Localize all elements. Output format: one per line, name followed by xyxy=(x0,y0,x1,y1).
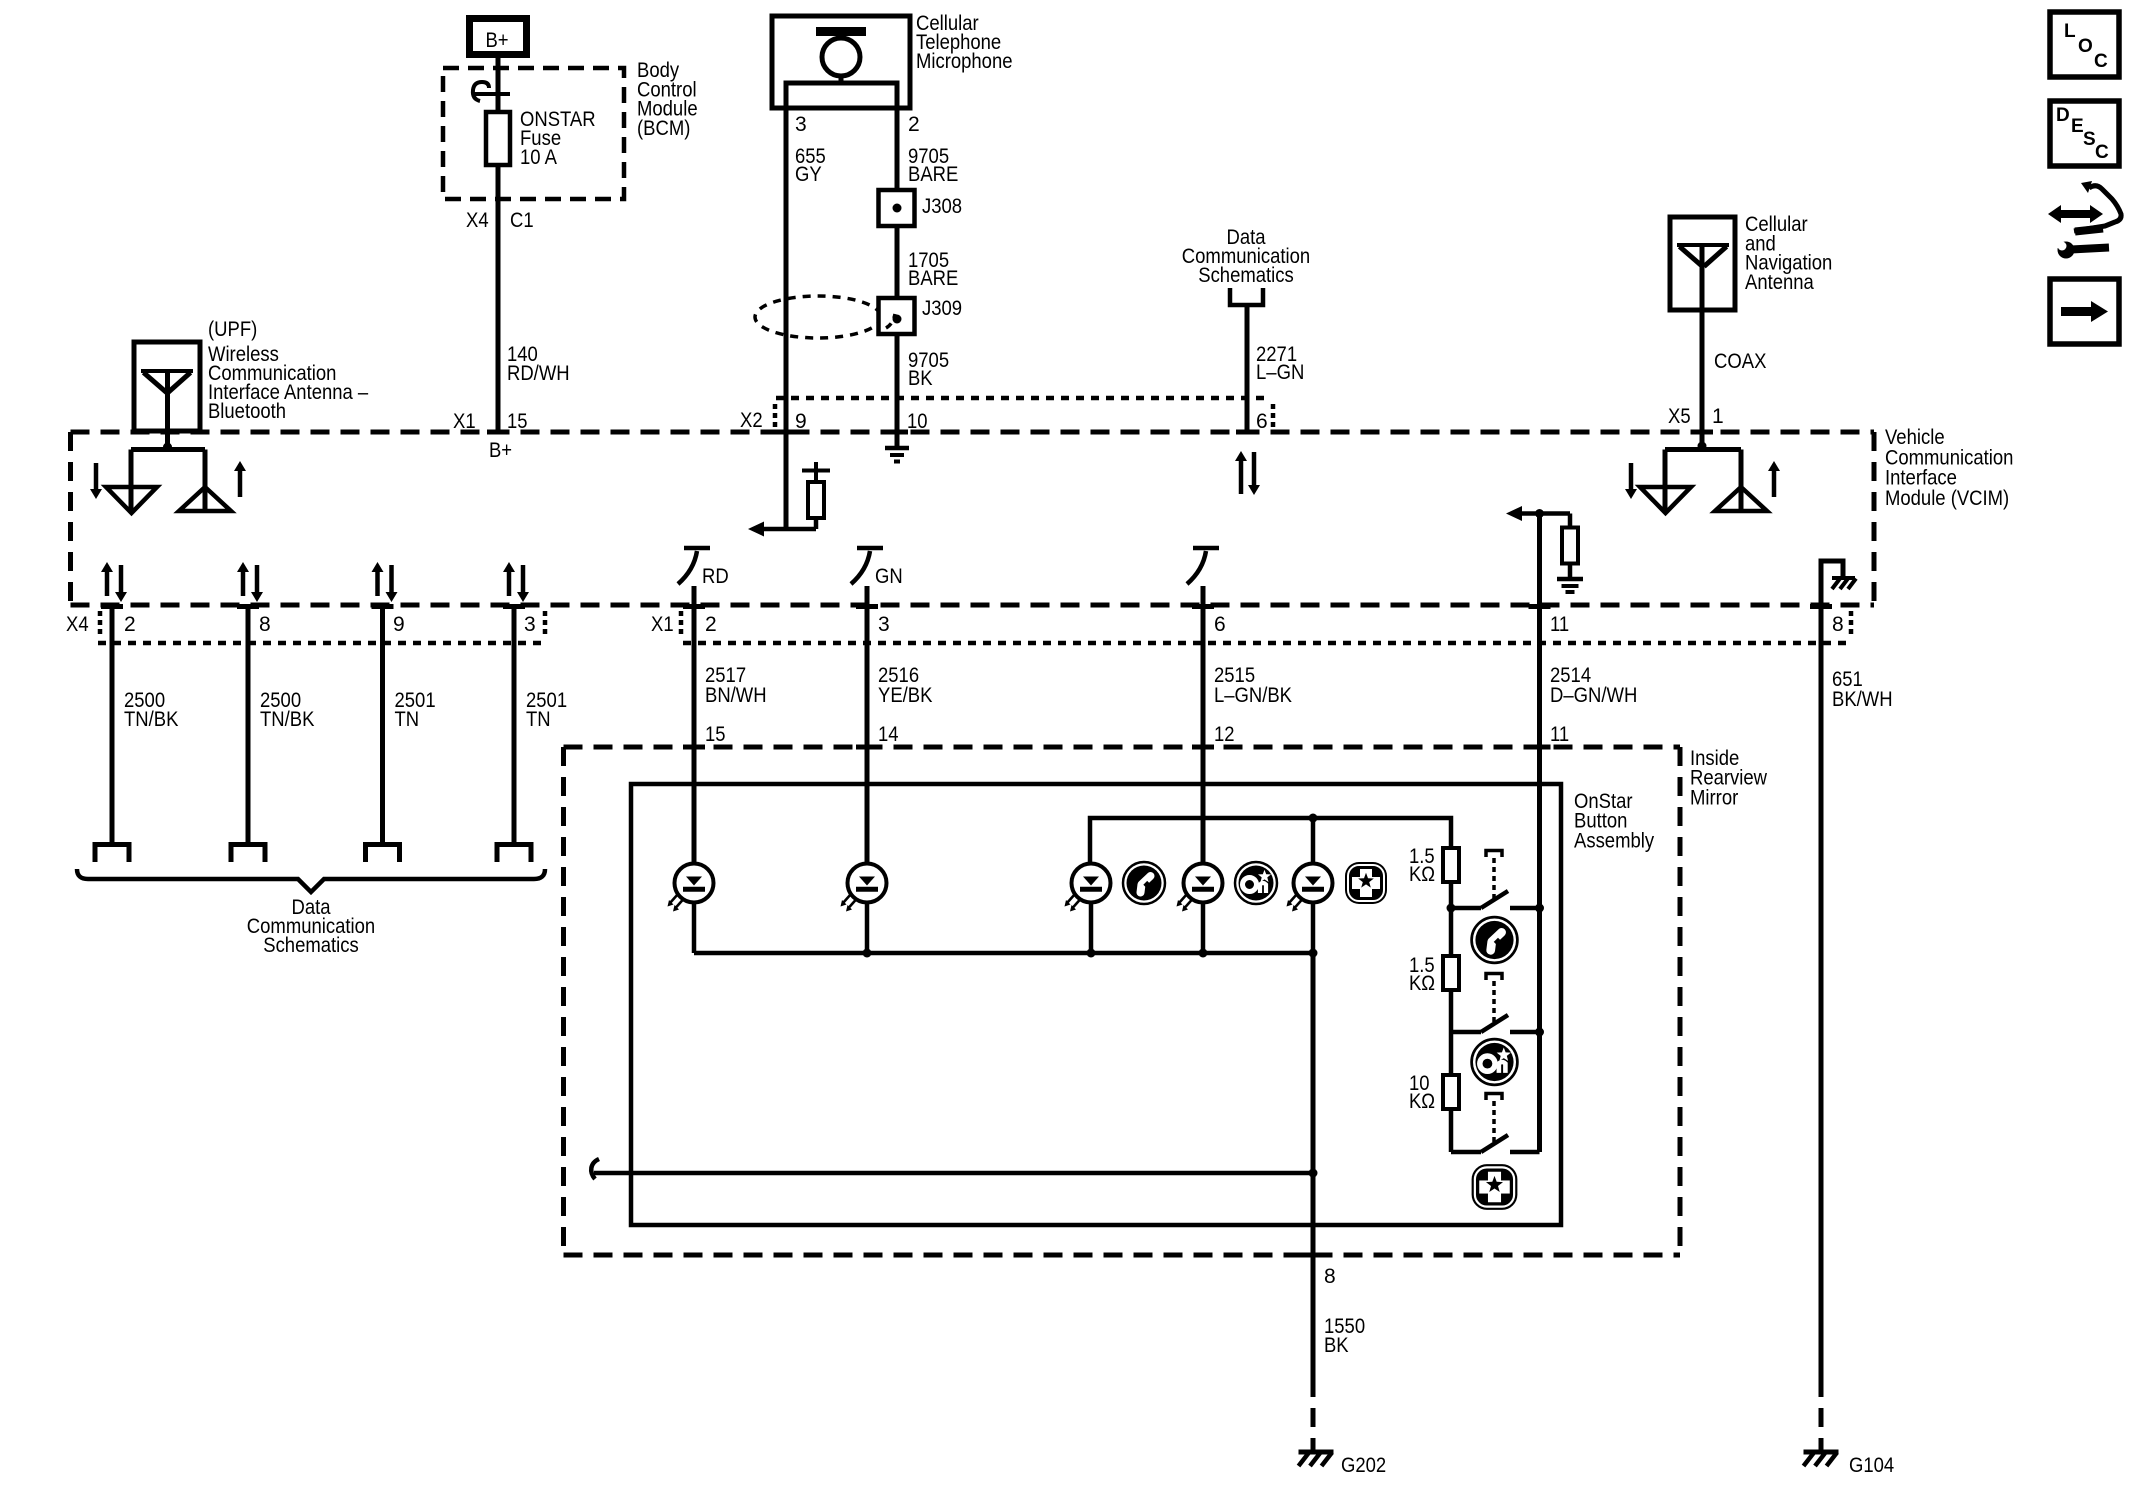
wire 2500 TN/BK xyxy=(110,607,115,843)
svg-text:BARE: BARE xyxy=(908,267,958,290)
shield terminator (pin 6 wire) xyxy=(1193,546,1219,551)
down arrow (receive) xyxy=(1629,463,1634,490)
connector separators xyxy=(98,611,103,637)
svg-text:C1: C1 xyxy=(510,209,534,232)
VCIM chassis ground jog (pin 8, 651) xyxy=(1821,561,1843,605)
phone button icon (switch) xyxy=(1472,917,1518,963)
svg-text:Antenna: Antenna xyxy=(1745,271,1814,294)
svg-text:D: D xyxy=(2056,105,2070,126)
svg-text:3: 3 xyxy=(524,613,536,636)
ground G202 xyxy=(1299,1450,1334,1455)
svg-text:G202: G202 xyxy=(1341,1454,1386,1477)
OnStar button face icon xyxy=(1235,862,1277,904)
emergency button icon (switch) xyxy=(1472,1164,1518,1210)
svg-text:3: 3 xyxy=(878,613,890,636)
svg-text:YE/BK: YE/BK xyxy=(878,684,932,707)
svg-text:COAX: COAX xyxy=(1714,350,1766,373)
svg-text:8: 8 xyxy=(1832,613,1844,636)
LED OnStar indicator (pin 12) xyxy=(1184,864,1223,903)
svg-text:9: 9 xyxy=(393,613,405,636)
LED feed bus xyxy=(1090,818,1451,864)
fuse ONSTAR Fuse 10 A xyxy=(496,112,501,432)
switch S3 (emergency) xyxy=(1451,1150,1481,1155)
svg-text:Module (VCIM): Module (VCIM) xyxy=(1885,487,2009,510)
shield terminator GN xyxy=(857,546,883,551)
svg-text:X4: X4 xyxy=(466,209,489,232)
svg-text:X5: X5 xyxy=(1668,405,1691,428)
shield terminator RD xyxy=(684,546,710,551)
svg-text:KΩ: KΩ xyxy=(1409,972,1435,995)
svg-text:E: E xyxy=(2071,116,2084,137)
resistor R2 1.5 KOhm xyxy=(1449,908,1454,956)
wire 9705 BARE (mic pin 2) xyxy=(895,108,900,447)
svg-text:6: 6 xyxy=(1256,410,1268,433)
svg-text:2: 2 xyxy=(705,613,717,636)
terminal xyxy=(95,845,129,863)
ground G104 xyxy=(1804,1450,1839,1455)
svg-text:C: C xyxy=(2094,51,2108,72)
svg-text:BK: BK xyxy=(908,367,933,390)
svg-text:12: 12 xyxy=(1214,723,1235,746)
connector X4/X1 lower dotted lines xyxy=(98,641,545,646)
resistor R1 1.5 KOhm xyxy=(1443,848,1459,882)
BCM dashed box (Body Control Module) xyxy=(443,68,624,199)
antenna box Wireless Communication Interface Antenna Bluetooth xyxy=(134,342,200,431)
wire 651 BK/WH xyxy=(1819,605,1824,1378)
terminal xyxy=(497,845,531,863)
antenna box Cellular and Navigation Antenna xyxy=(1670,217,1735,310)
pin ticks VCIM bottom xyxy=(101,604,123,609)
svg-text:BK/WH: BK/WH xyxy=(1832,688,1893,711)
emergency button face icon xyxy=(1345,862,1387,904)
svg-text:(BCM): (BCM) xyxy=(637,117,690,140)
wire 2517 BN/WH xyxy=(692,586,697,864)
switch S1 (phone) xyxy=(1447,904,1456,913)
VCIM audio out: arrow, resistor, ground (pin 11) xyxy=(1518,511,1570,516)
svg-text:GY: GY xyxy=(795,163,822,186)
svg-text:D–GN/WH: D–GN/WH xyxy=(1550,684,1637,707)
svg-text:BARE: BARE xyxy=(908,163,958,186)
current hook symbol in BCM xyxy=(474,92,510,96)
svg-text:X2: X2 xyxy=(740,409,763,432)
svg-text:TN/BK: TN/BK xyxy=(260,708,314,731)
terminal xyxy=(231,845,265,863)
up arrow (transmit) xyxy=(1772,470,1777,497)
svg-text:KΩ: KΩ xyxy=(1409,1090,1435,1113)
LED phone indicator xyxy=(1072,864,1111,903)
svg-text:Mirror: Mirror xyxy=(1690,786,1738,809)
OnStar button icon (switch) xyxy=(1472,1039,1518,1085)
dashed wire to G104 xyxy=(1819,1378,1824,1452)
splice J309 with harness ellipse xyxy=(755,296,881,338)
svg-text:TN/BK: TN/BK xyxy=(124,708,178,731)
connector X2 separator marks xyxy=(773,404,778,430)
svg-text:TN: TN xyxy=(395,708,420,731)
wire 2501 TN xyxy=(512,607,517,843)
svg-text:11: 11 xyxy=(1550,723,1569,746)
ground symbol (mic shield at VCIM pin 10) xyxy=(885,446,909,451)
svg-text:1: 1 xyxy=(1712,405,1724,428)
svg-text:8: 8 xyxy=(1324,1265,1336,1288)
ground return branch with shield curl xyxy=(594,1171,1313,1176)
antenna symbol xyxy=(141,369,193,373)
svg-text:Assembly: Assembly xyxy=(1574,829,1655,852)
svg-text:BN/WH: BN/WH xyxy=(705,684,767,707)
dashed wire to G202 xyxy=(1311,1378,1316,1452)
svg-text:S: S xyxy=(2083,129,2096,150)
svg-text:Schematics: Schematics xyxy=(1198,264,1294,287)
switch S2 (OnStar) xyxy=(1451,1030,1481,1035)
wire 2501 TN xyxy=(380,607,385,843)
microphone symbol xyxy=(816,27,866,36)
wire 2516 YE/BK xyxy=(865,586,870,864)
terminal xyxy=(366,845,400,863)
VCIM dashed box (Vehicle Communication Interface Module) xyxy=(71,430,1875,435)
svg-text:3: 3 xyxy=(795,113,807,136)
svg-text:6: 6 xyxy=(1214,613,1226,636)
svg-text:B+: B+ xyxy=(485,29,508,52)
svg-text:L–GN: L–GN xyxy=(1256,361,1304,384)
svg-text:11: 11 xyxy=(1550,613,1569,636)
svg-text:14: 14 xyxy=(878,723,899,746)
Cellular antenna feed network in VCIM xyxy=(1698,442,1707,451)
power symbol B+ (battery feed box) xyxy=(470,19,527,55)
svg-text:B+: B+ xyxy=(489,439,512,462)
svg-text:BK: BK xyxy=(1324,1334,1349,1357)
Inside Rearview Mirror dashed box xyxy=(564,745,1681,750)
svg-text:Schematics: Schematics xyxy=(263,934,359,957)
svg-text:X1: X1 xyxy=(651,613,674,636)
up arrow (transmit) xyxy=(238,470,243,497)
svg-text:2: 2 xyxy=(124,613,136,636)
antenna symbol xyxy=(1677,243,1729,247)
wire 2271 L-GN xyxy=(1245,305,1250,432)
svg-text:10 A: 10 A xyxy=(520,146,557,169)
wire 2515 L-GN/BK xyxy=(1201,586,1206,864)
wire 2514 D-GN/WH xyxy=(1537,514,1542,1153)
pin tick mirror bottom xyxy=(1302,1253,1324,1258)
connector X2 dotted line xyxy=(776,396,1270,401)
down arrow (receive) xyxy=(94,463,99,490)
sidebar tools icon xyxy=(2059,210,2092,218)
pin ticks VCIM top xyxy=(487,430,509,435)
LED backlight 2 (pin 14) xyxy=(848,864,887,903)
svg-text:J309: J309 xyxy=(922,297,962,320)
svg-text:X4: X4 xyxy=(66,613,89,636)
svg-text:GN: GN xyxy=(875,565,903,588)
VCIM mic input: arrow, resistor, tap (pin 9) xyxy=(784,432,789,529)
phone button face icon xyxy=(1123,862,1165,904)
pin ticks mirror top xyxy=(683,745,705,750)
svg-text:G104: G104 xyxy=(1849,1454,1894,1477)
svg-text:KΩ: KΩ xyxy=(1409,863,1435,886)
svg-text:Bluetooth: Bluetooth xyxy=(208,400,286,423)
sidebar LOC box xyxy=(2050,12,2119,77)
LED cathode bus xyxy=(692,902,697,953)
svg-text:2: 2 xyxy=(908,113,920,136)
LED emergency indicator xyxy=(1294,864,1333,903)
svg-text:8: 8 xyxy=(259,613,271,636)
wire 655 GY (mic pin 3) xyxy=(784,108,789,529)
svg-text:TN: TN xyxy=(526,708,551,731)
resistor R3 10 KOhm xyxy=(1449,1032,1454,1075)
sidebar DESC box xyxy=(2050,101,2119,166)
svg-text:Microphone: Microphone xyxy=(916,50,1013,73)
svg-text:RD: RD xyxy=(702,565,729,588)
Bluetooth antenna feed network in VCIM xyxy=(163,443,172,452)
svg-text:RD/WH: RD/WH xyxy=(507,362,570,385)
svg-text:(UPF): (UPF) xyxy=(208,318,257,341)
svg-text:O: O xyxy=(2078,36,2093,57)
ground return drop to pin 8 xyxy=(1311,953,1316,1378)
svg-text:L–GN/BK: L–GN/BK xyxy=(1214,684,1292,707)
splice J308 xyxy=(879,190,915,226)
wire 2500 TN/BK xyxy=(246,607,251,843)
svg-text:C: C xyxy=(2095,142,2109,163)
microphone: Cellular Telephone Microphone box xyxy=(772,16,910,108)
brace Data Communication Schematics xyxy=(77,869,545,892)
wire B+ to fuse xyxy=(496,58,501,112)
OnStar Button Assembly box xyxy=(631,784,1561,1225)
LED backlight 1 (pin 15) xyxy=(675,864,714,903)
svg-text:J308: J308 xyxy=(922,195,962,218)
svg-text:15: 15 xyxy=(705,723,726,746)
serial data arrows at pin 6 xyxy=(1239,460,1244,494)
sidebar forward arrow box xyxy=(2050,279,2119,344)
serial data arrows X4 pins xyxy=(105,571,110,596)
svg-text:L: L xyxy=(2064,21,2076,42)
